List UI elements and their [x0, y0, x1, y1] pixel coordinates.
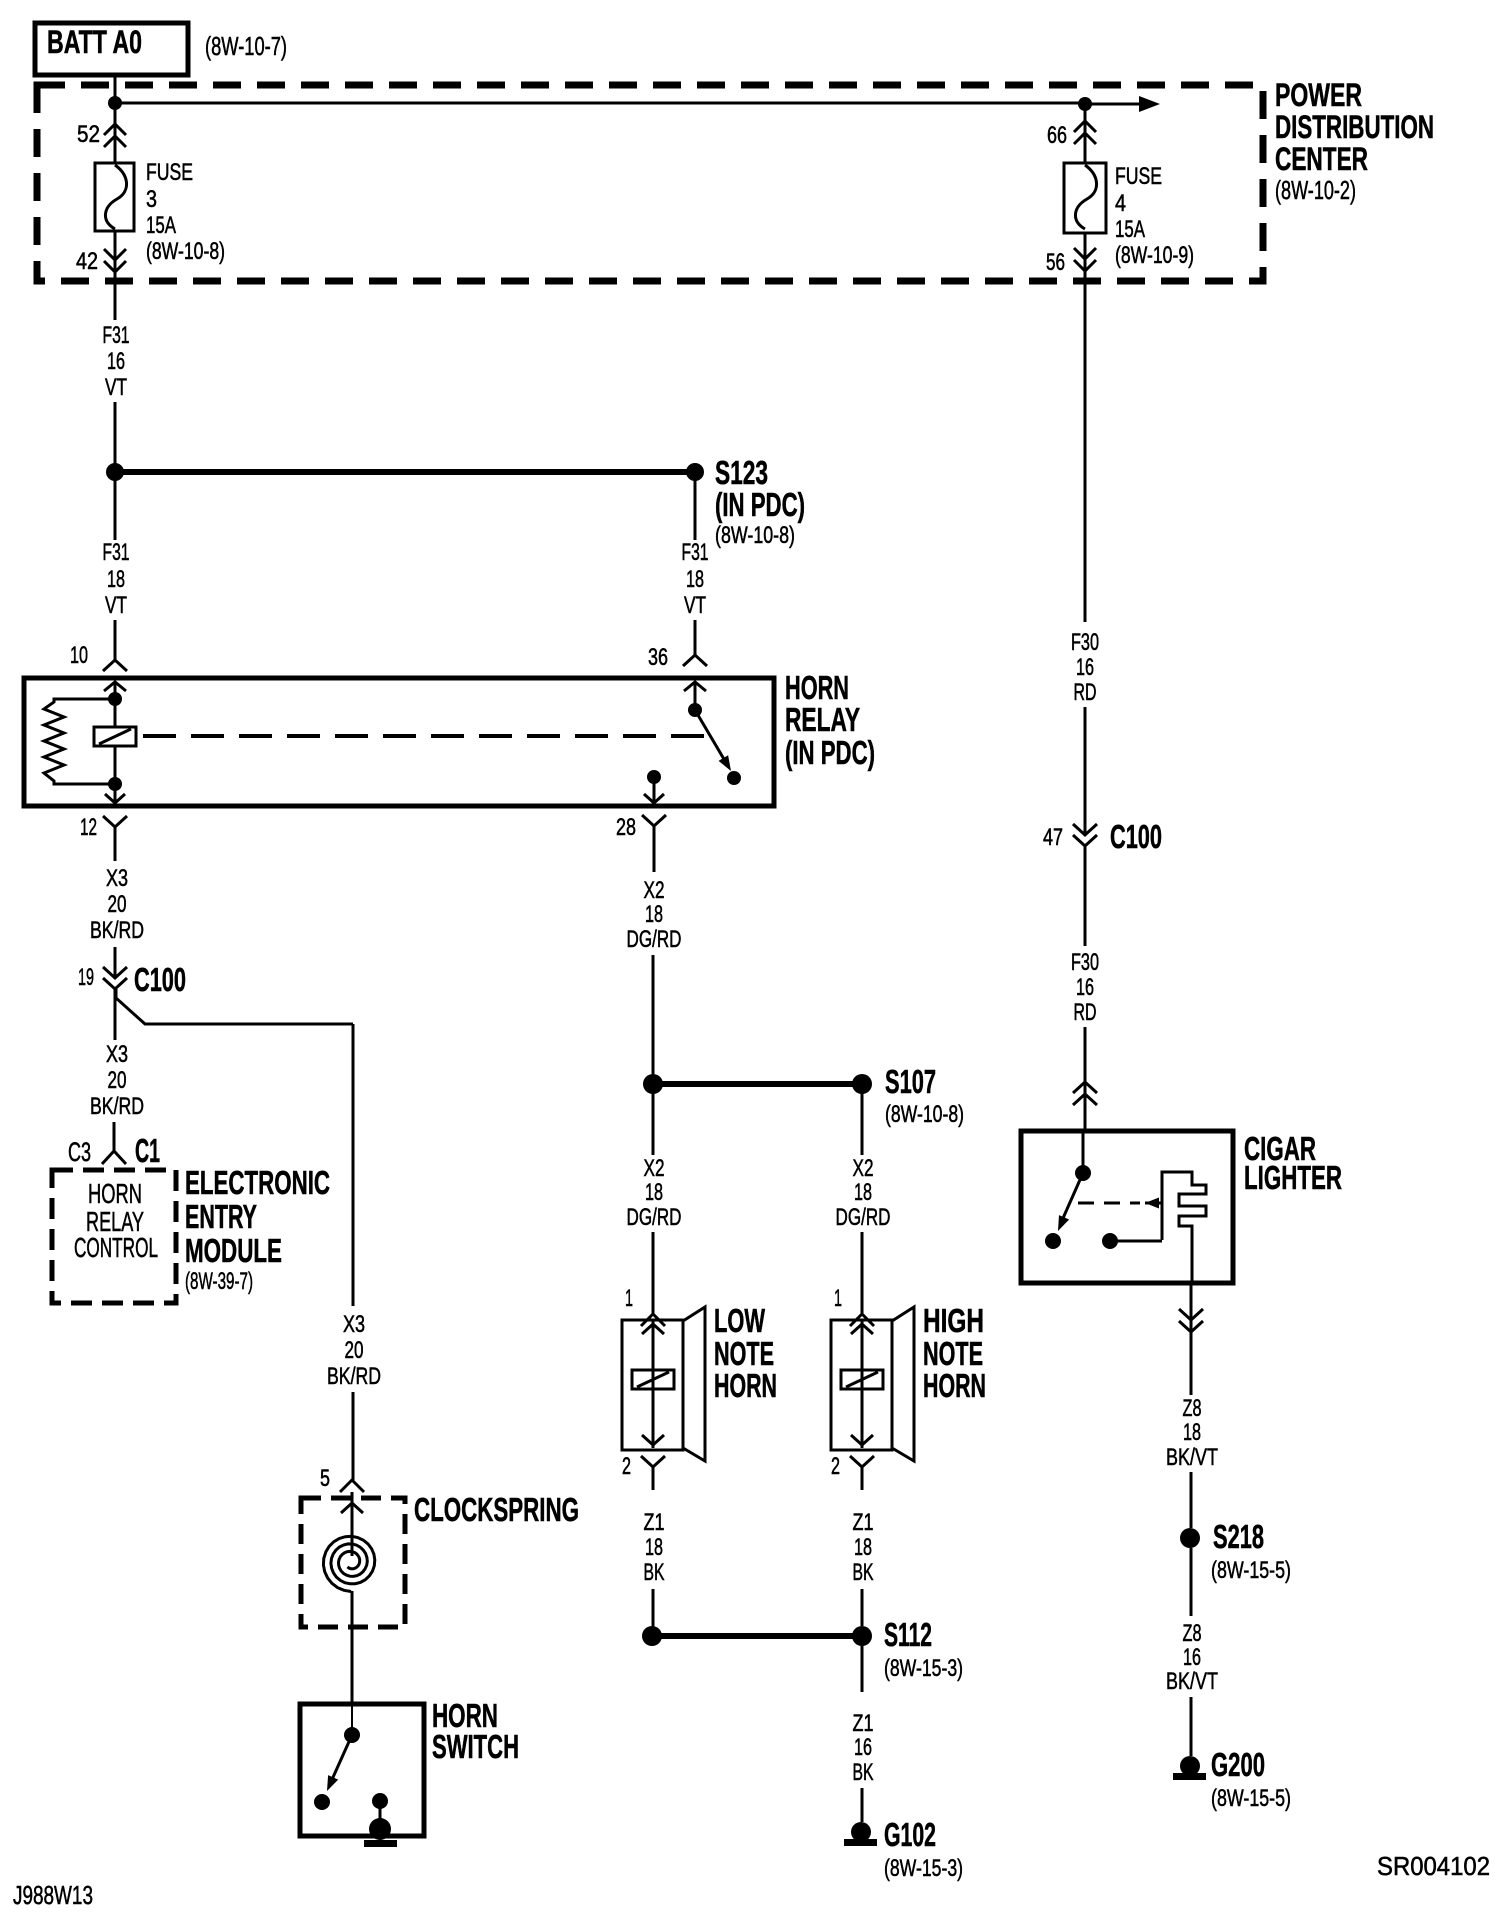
svg-text:(IN PDC): (IN PDC): [715, 486, 805, 523]
svg-text:DG/RD: DG/RD: [836, 1204, 891, 1231]
svg-text:16: 16: [1076, 654, 1094, 681]
connector Y pin 2 high horn: [850, 1456, 874, 1467]
svg-text:18: 18: [686, 566, 704, 593]
connector Y pin 28: [642, 815, 666, 826]
svg-text:VT: VT: [684, 592, 706, 619]
svg-text:VT: VT: [105, 374, 127, 401]
relay output exit arrow: [644, 794, 664, 803]
svg-text:18: 18: [854, 1534, 872, 1561]
svg-text:BK/RD: BK/RD: [90, 1093, 144, 1120]
wire S112 to Z1 16 BK: [861, 1646, 864, 1692]
svg-text:(8W-15-3): (8W-15-3): [884, 1855, 963, 1882]
svg-text:MODULE: MODULE: [185, 1232, 282, 1269]
fuse F4 15A: [1064, 163, 1106, 233]
wire to ground G200: [1190, 1697, 1193, 1756]
cigar element wire from contact: [1110, 1240, 1162, 1243]
svg-text:X2: X2: [853, 1155, 874, 1182]
svg-text:20: 20: [345, 1337, 364, 1364]
wire to splice S107: [652, 955, 655, 1084]
svg-text:Z8: Z8: [1183, 1620, 1202, 1647]
svg-text:20: 20: [108, 891, 127, 918]
svg-text:DG/RD: DG/RD: [627, 1204, 682, 1231]
power distribution center dashed box: [37, 85, 1263, 281]
svg-text:52: 52: [77, 121, 100, 148]
wire cigar to Z8: [1190, 1283, 1193, 1395]
svg-text:15A: 15A: [146, 212, 176, 239]
relay switch output contact dot: [647, 770, 661, 784]
HIGH note horn symbol: [831, 1307, 914, 1461]
wire F31 16 VT: [114, 281, 117, 320]
wire to C100 pin 47: [1084, 707, 1087, 835]
svg-text:X3: X3: [106, 1041, 128, 1068]
svg-text:(8W-10-7): (8W-10-7): [205, 31, 287, 61]
wire S218 to Z8 16 BK/VT: [1190, 1548, 1193, 1616]
svg-text:66: 66: [1047, 122, 1067, 149]
svg-text:HORN: HORN: [923, 1367, 986, 1404]
horn switch box: [300, 1704, 424, 1836]
relay switch common dot: [688, 703, 702, 717]
svg-text:18: 18: [1183, 1419, 1201, 1446]
connector chevron pin 5: [340, 1480, 364, 1492]
label G200 (8W-15-5): [1211, 1746, 1291, 1812]
svg-text:Z1: Z1: [853, 1710, 874, 1737]
relay coil exit arrow pin 12: [114, 784, 117, 803]
svg-text:(8W-10-9): (8W-10-9): [1115, 242, 1194, 269]
svg-text:BK/RD: BK/RD: [327, 1363, 381, 1390]
clockspring spiral: [323, 1536, 374, 1591]
label X3 20 BK/RD: [90, 865, 144, 944]
connector double chevron pin 42: [114, 231, 117, 281]
horn switch lever: [330, 1735, 352, 1784]
relay switch entry arrow pin 36: [684, 682, 706, 691]
svg-text:16: 16: [854, 1734, 872, 1761]
svg-text:36: 36: [648, 644, 668, 671]
label X2 18 DG/RD high horn: [836, 1155, 891, 1231]
wire to C100 pin 19: [114, 947, 117, 978]
svg-text:(8W-15-3): (8W-15-3): [884, 1655, 963, 1682]
horn switch ground contact dot: [372, 1793, 388, 1809]
wire C100 to EEM: [114, 989, 117, 1040]
label G102 (8W-15-3): [884, 1816, 963, 1882]
connector double chevron pin 52: [114, 103, 117, 163]
label S123 (IN PDC) (8W-10-8): [715, 454, 805, 549]
splice S107 dot left: [643, 1074, 663, 1094]
wire to HIGH note horn pin 1: [861, 1232, 864, 1314]
svg-text:FUSE: FUSE: [1115, 163, 1162, 190]
svg-text:S107: S107: [885, 1063, 936, 1100]
wire C100 to F30 label: [1084, 846, 1087, 946]
svg-text:X3: X3: [106, 865, 128, 892]
svg-text:(8W-10-8): (8W-10-8): [885, 1101, 964, 1128]
svg-text:ELECTRONIC: ELECTRONIC: [185, 1164, 330, 1201]
label Z8 18 BK/VT: [1166, 1395, 1218, 1471]
svg-text:J988W13: J988W13: [13, 1880, 93, 1910]
splice S123 junction dot: [106, 463, 124, 481]
svg-text:3: 3: [146, 186, 157, 213]
label Z1 16 BK: [853, 1710, 874, 1786]
splice S123 dot right: [686, 463, 704, 481]
splice S218 dot: [1180, 1528, 1200, 1548]
cigar lighter box: [1021, 1131, 1233, 1283]
label F31 18 VT right: [682, 539, 709, 619]
svg-text:X2: X2: [644, 877, 665, 904]
svg-text:HIGH: HIGH: [923, 1302, 984, 1339]
svg-text:DG/RD: DG/RD: [627, 926, 682, 953]
svg-text:X2: X2: [644, 1155, 665, 1182]
horn relay box: [24, 678, 774, 806]
svg-text:16: 16: [1076, 974, 1094, 1001]
relay suppression resistor: [44, 699, 114, 784]
label Z1 18 BK low horn: [644, 1509, 665, 1586]
relay coil top junction dot: [108, 692, 122, 706]
connector double chevron pin 66: [1084, 104, 1087, 163]
cigar switch lever: [1060, 1173, 1083, 1225]
svg-text:BK: BK: [853, 1559, 874, 1586]
label F31 16 VT: [103, 322, 130, 401]
wire high horn to splice S112: [861, 1589, 864, 1626]
wire S107 to LOW note horn: [652, 1090, 655, 1155]
svg-text:42: 42: [76, 248, 98, 275]
splice S112 dot left: [642, 1626, 662, 1646]
cigar element output wire: [1191, 1240, 1194, 1283]
wire to connector C1: [113, 1122, 116, 1151]
wire to relay pin 10: [114, 620, 117, 660]
svg-text:SR004102: SR004102: [1377, 1851, 1490, 1881]
node junction dot at fuse 4: [1078, 97, 1092, 111]
svg-text:SWITCH: SWITCH: [432, 1728, 519, 1765]
svg-text:F31: F31: [103, 539, 130, 566]
horn switch common dot: [351, 1704, 353, 1735]
svg-text:28: 28: [616, 814, 636, 841]
label HORN SWITCH: [432, 1697, 519, 1765]
svg-text:CENTER: CENTER: [1275, 141, 1368, 177]
svg-text:HORN: HORN: [714, 1367, 777, 1404]
connector chevron C1: [102, 1151, 126, 1164]
svg-text:(8W-15-5): (8W-15-5): [1211, 1785, 1291, 1812]
wire low horn to splice S112: [652, 1589, 655, 1628]
svg-text:18: 18: [107, 566, 125, 593]
svg-text:15A: 15A: [1115, 216, 1145, 243]
svg-text:C100: C100: [1110, 818, 1162, 855]
wire to ground G102: [861, 1788, 864, 1822]
clockspring entry arrow: [341, 1503, 363, 1513]
svg-text:RELAY: RELAY: [785, 701, 860, 738]
svg-text:18: 18: [645, 901, 663, 928]
svg-text:ENTRY: ENTRY: [185, 1198, 257, 1235]
svg-text:HORN: HORN: [88, 1178, 142, 1209]
svg-text:CONTROL: CONTROL: [74, 1232, 158, 1263]
wire splice S123 horizontal: [115, 469, 695, 475]
svg-text:5: 5: [320, 1465, 330, 1492]
clockspring wire out: [351, 1591, 354, 1704]
wire F30 16 RD: [1084, 281, 1087, 622]
svg-text:2: 2: [622, 1453, 631, 1480]
wire left F31 18 VT: [114, 472, 117, 540]
relay switch lever: [695, 710, 728, 766]
wire S123 drop to relay pin 36: [694, 472, 697, 540]
svg-text:18: 18: [854, 1179, 872, 1206]
svg-text:F31: F31: [103, 322, 130, 349]
wire to LOW note horn pin 1: [652, 1232, 655, 1314]
label X2 18 DG/RD low horn: [627, 1155, 682, 1231]
svg-text:1: 1: [834, 1285, 842, 1312]
connector chevron pin 1 low horn: [641, 1314, 665, 1326]
svg-text:(8W-39-7): (8W-39-7): [185, 1268, 253, 1295]
label Z1 18 BK high horn: [853, 1509, 874, 1586]
label S107 (8W-10-8): [885, 1063, 964, 1128]
svg-text:X3: X3: [343, 1311, 365, 1338]
ground G102 symbol: [851, 1822, 871, 1842]
connector Y pin 2 low horn: [641, 1456, 665, 1467]
connector double chevron pin 56: [1084, 233, 1087, 281]
fuse 4 labels: [1115, 163, 1194, 269]
svg-text:C3: C3: [68, 1137, 91, 1167]
LOW note horn symbol: [622, 1307, 705, 1461]
svg-text:(8W-15-5): (8W-15-5): [1211, 1557, 1291, 1584]
svg-text:RD: RD: [1074, 999, 1097, 1026]
wire to cigar lighter: [1084, 1027, 1087, 1131]
svg-text:BK: BK: [644, 1559, 665, 1586]
svg-text:Z1: Z1: [853, 1509, 874, 1536]
svg-text:Z1: Z1: [644, 1509, 665, 1536]
label X3 20 BK/RD below C100: [90, 1041, 144, 1120]
connector Y pin 12: [103, 816, 127, 827]
svg-text:(8W-10-2): (8W-10-2): [1275, 175, 1356, 205]
battery feed box BATT A0: [35, 23, 188, 75]
cigar lighter heating element: [1162, 1172, 1206, 1240]
cigar switch contact dot: [1045, 1233, 1061, 1249]
splice S112 dot right: [852, 1626, 872, 1646]
wire to clockspring pin 5: [352, 1392, 355, 1480]
svg-text:POWER: POWER: [1275, 77, 1362, 113]
label F30 16 RD: [1071, 629, 1099, 706]
connector chevron pin 10: [103, 660, 127, 671]
wire to horn switch ground: [379, 1801, 382, 1828]
svg-text:12: 12: [80, 814, 97, 841]
wire arrow continuing right: [1085, 103, 1146, 106]
svg-text:LIGHTER: LIGHTER: [1244, 1159, 1342, 1196]
connector double chevron cigar return: [1179, 1309, 1203, 1320]
relay dashed actuation line: [143, 734, 706, 738]
svg-text:19: 19: [78, 964, 94, 991]
svg-text:4: 4: [1115, 190, 1126, 217]
svg-text:VT: VT: [105, 592, 127, 619]
svg-text:16: 16: [107, 348, 125, 375]
svg-text:C100: C100: [134, 961, 186, 998]
svg-text:S112: S112: [884, 1616, 932, 1653]
svg-text:(8W-10-8): (8W-10-8): [146, 238, 225, 265]
svg-text:F30: F30: [1071, 949, 1099, 976]
cigar switch second contact dot: [1102, 1233, 1118, 1249]
wire BATT A0 to junction: [114, 75, 117, 103]
svg-text:(8W-10-8): (8W-10-8): [715, 522, 795, 549]
label S112 (8W-15-3): [884, 1616, 963, 1682]
relay coil: [114, 699, 117, 727]
wire S107 to HIGH note horn: [861, 1090, 864, 1155]
label POWER DISTRIBUTION CENTER (8W-10-2): [1275, 77, 1434, 205]
svg-text:FUSE: FUSE: [146, 159, 193, 186]
label F30 16 RD lower: [1071, 949, 1099, 1026]
connector chevron pin 1 high horn: [850, 1314, 874, 1326]
svg-text:56: 56: [1046, 249, 1065, 276]
label X2 18 DG/RD: [627, 877, 682, 953]
svg-text:G102: G102: [884, 1816, 936, 1853]
svg-text:18: 18: [645, 1179, 663, 1206]
label Z8 16 BK/VT: [1166, 1620, 1218, 1695]
cigar dashed actuation line: [1078, 1202, 1140, 1205]
svg-text:20: 20: [108, 1067, 127, 1094]
wire splice S112 horizontal: [652, 1633, 862, 1639]
connector chevron pin 36: [683, 655, 707, 666]
svg-text:DISTRIBUTION: DISTRIBUTION: [1275, 109, 1434, 145]
wire bus A0 horizontal: [115, 102, 1085, 105]
wire to relay pin 36: [694, 620, 697, 655]
label HORN RELAY CONTROL: [74, 1178, 158, 1263]
svg-text:10: 10: [70, 642, 88, 669]
svg-text:BK: BK: [853, 1759, 874, 1786]
svg-text:F31: F31: [682, 539, 709, 566]
svg-text:2: 2: [831, 1453, 840, 1480]
connector C100 double chevron pin 47: [1073, 824, 1097, 835]
electronic entry module dashed box: [52, 1170, 176, 1303]
connector C100 double chevron pin 19: [103, 967, 127, 978]
horn switch contact dot: [314, 1794, 330, 1810]
wire to splice S218: [1190, 1472, 1193, 1528]
svg-text:LOW: LOW: [714, 1302, 766, 1339]
fuse F3 15A: [95, 163, 134, 231]
label F31 18 VT left: [103, 539, 130, 619]
label ELECTRONIC ENTRY MODULE (8W-39-7): [185, 1164, 330, 1295]
wire branch to clockspring: [116, 989, 353, 1024]
label LOW NOTE HORN: [714, 1302, 777, 1404]
wire splice S107 horizontal: [653, 1081, 862, 1087]
clockspring wire into spiral: [351, 1492, 354, 1556]
connector double chevron cigar feed: [1073, 1082, 1097, 1093]
svg-text:G200: G200: [1211, 1746, 1265, 1783]
label CIGAR LIGHTER: [1244, 1130, 1342, 1196]
svg-text:BK/VT: BK/VT: [1166, 1444, 1218, 1471]
svg-text:1: 1: [625, 1285, 633, 1312]
svg-text:(IN PDC): (IN PDC): [785, 734, 875, 771]
svg-text:BK/VT: BK/VT: [1166, 1668, 1218, 1695]
svg-text:Z8: Z8: [1183, 1395, 1202, 1422]
svg-text:F30: F30: [1071, 629, 1099, 656]
label HORN RELAY (IN PDC): [785, 669, 875, 771]
svg-text:BATT A0: BATT A0: [47, 24, 142, 60]
svg-text:16: 16: [1183, 1644, 1201, 1671]
svg-text:18: 18: [645, 1534, 663, 1561]
label HIGH NOTE HORN: [923, 1302, 986, 1404]
splice S107 dot right: [852, 1074, 872, 1094]
cigar switch common dot: [1082, 1131, 1085, 1173]
svg-text:S218: S218: [1213, 1518, 1264, 1555]
node junction dot: [108, 96, 122, 110]
relay switch NO contact dot: [727, 771, 741, 785]
svg-text:BK/RD: BK/RD: [90, 917, 144, 944]
ground G200 symbol: [1180, 1756, 1200, 1776]
svg-text:CLOCKSPRING: CLOCKSPRING: [414, 1491, 579, 1528]
clockspring dashed box: [301, 1498, 405, 1627]
fuse 3 labels: [146, 159, 225, 265]
svg-text:RD: RD: [1074, 679, 1097, 706]
svg-text:C1: C1: [135, 1132, 160, 1169]
relay coil bottom junction dot: [108, 777, 122, 791]
relay coil wire entry arrow: [104, 682, 126, 691]
wire VT to splice S123: [114, 402, 117, 472]
wire relay output to pin 28: [653, 777, 656, 804]
label X3 20 BK/RD clockspring feed: [327, 1311, 381, 1390]
horn switch ground symbol: [369, 1818, 391, 1840]
label S218 (8W-15-5): [1211, 1518, 1291, 1584]
svg-text:47: 47: [1043, 824, 1063, 851]
